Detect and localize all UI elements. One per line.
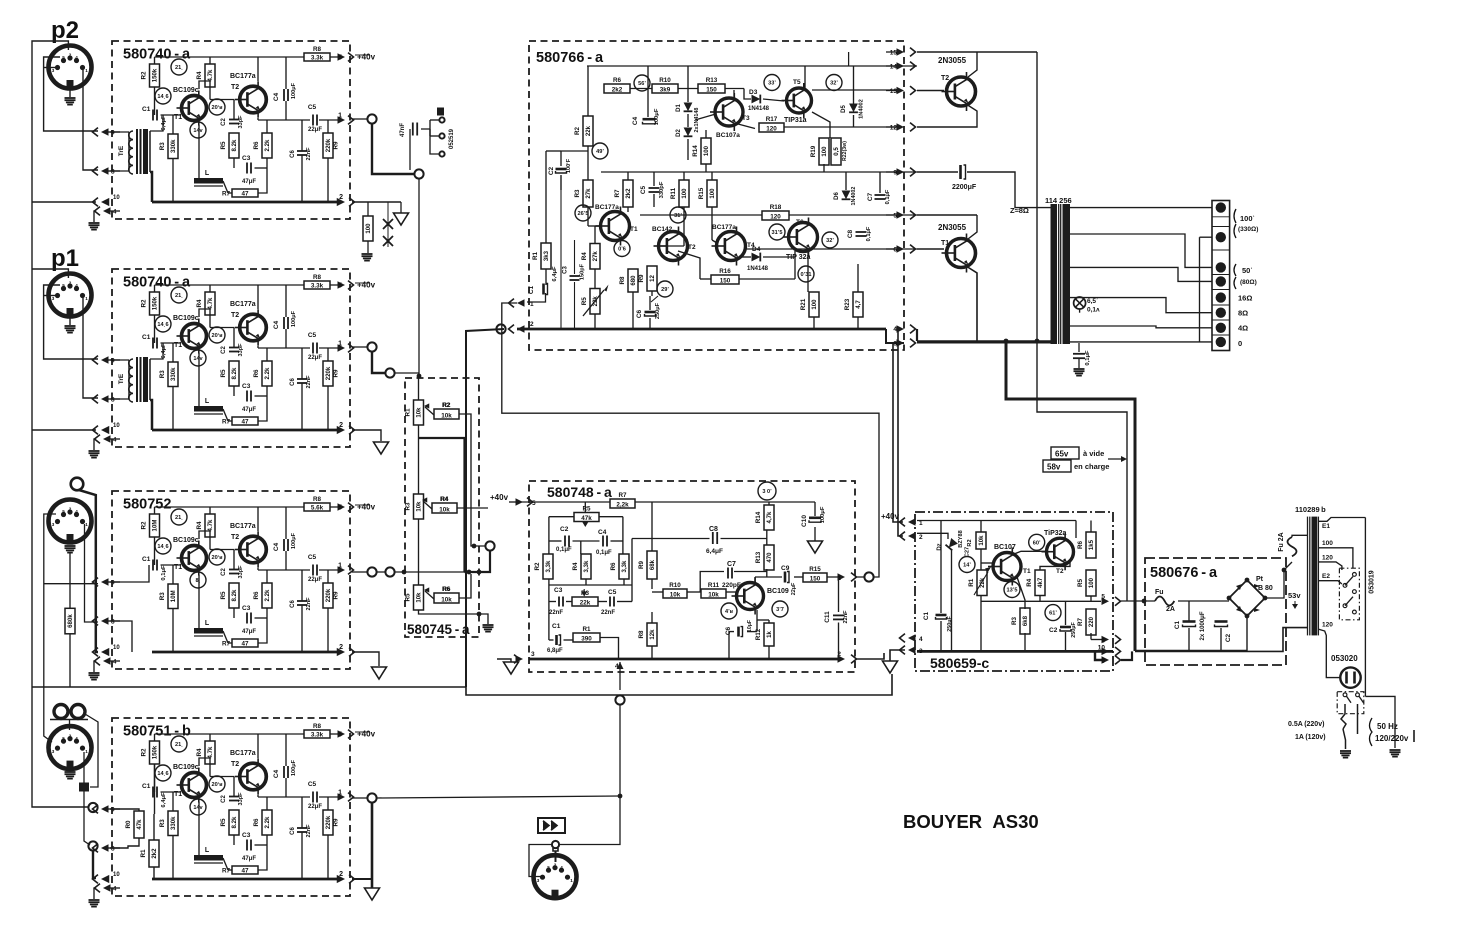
resistor R6 3.3k (748) bbox=[619, 554, 629, 579]
svg-text:0,1μF: 0,1μF bbox=[161, 565, 167, 581]
svg-text:T2: T2 bbox=[941, 75, 949, 82]
resistor R2 bbox=[150, 741, 160, 764]
svg-text:2: 2 bbox=[919, 534, 923, 541]
svg-text:330k: 330k bbox=[170, 367, 177, 381]
ground hatch below p1 bbox=[69, 317, 71, 325]
input jack circle block4 pin9 bbox=[88, 803, 97, 812]
svg-text:R8: R8 bbox=[313, 496, 322, 503]
capacitor C6 22nF bbox=[297, 600, 307, 602]
svg-text:R2: R2 bbox=[141, 521, 148, 530]
ground hatch below 0.1uF bbox=[1074, 368, 1085, 370]
svg-text:TrE: TrE bbox=[118, 145, 125, 156]
aux phono connector bbox=[71, 478, 84, 491]
svg-text:9: 9 bbox=[111, 580, 115, 587]
wire to output transformer bbox=[967, 172, 1051, 208]
wire R16 row bbox=[700, 278, 711, 280]
svg-text:100: 100 bbox=[365, 223, 372, 234]
svg-text:8.2k: 8.2k bbox=[231, 367, 238, 379]
input pin 8 bbox=[101, 617, 109, 625]
svg-text:R6: R6 bbox=[613, 77, 622, 84]
svg-text:R19: R19 bbox=[810, 145, 817, 157]
input pin 8 bbox=[101, 395, 109, 403]
wire block2 output to mid bbox=[372, 352, 385, 373]
tape connector capsule bbox=[79, 783, 89, 792]
svg-text:5: 5 bbox=[893, 213, 897, 220]
wire block1 pin2 extension bbox=[352, 201, 401, 203]
svg-text:580745 - a: 580745 - a bbox=[407, 622, 470, 637]
svg-text:C2: C2 bbox=[560, 526, 569, 533]
svg-text:100μF: 100μF bbox=[291, 310, 297, 327]
resistor R7 bbox=[232, 189, 258, 197]
svg-text:BC109: BC109 bbox=[767, 588, 789, 595]
module 580748-a dashed box bbox=[529, 481, 855, 672]
svg-text:1N4002: 1N4002 bbox=[859, 99, 865, 119]
wires internal bbox=[155, 506, 305, 508]
svg-text:3: 3 bbox=[531, 651, 535, 658]
voltage circle 26_5 bbox=[575, 205, 591, 221]
svg-text:E2: E2 bbox=[1322, 573, 1330, 580]
C8 row bbox=[632, 538, 710, 540]
svg-text:10k: 10k bbox=[415, 407, 422, 418]
resistor R6 2k2 bbox=[604, 84, 630, 93]
resistor R2 10k (659) bbox=[976, 532, 986, 549]
svg-text:120: 120 bbox=[1322, 622, 1333, 629]
resistor R4 bbox=[205, 741, 215, 764]
svg-text:R7: R7 bbox=[614, 189, 621, 198]
capacitor C2 250uF (659) bbox=[1060, 626, 1071, 629]
long wire pin15 vertical bbox=[1037, 52, 1127, 601]
svg-text:1: 1 bbox=[85, 68, 88, 73]
tape head symbol bbox=[54, 705, 68, 719]
svg-text:2: 2 bbox=[339, 194, 343, 201]
voltage circle 60 (659) bbox=[1029, 534, 1045, 550]
resistor R8 12k (748) bbox=[647, 623, 657, 646]
svg-text:5: 5 bbox=[547, 865, 550, 870]
svg-text:R4: R4 bbox=[581, 252, 588, 261]
svg-text:2N3055: 2N3055 bbox=[938, 223, 967, 232]
resistor R9 bbox=[323, 810, 333, 835]
svg-text:21ˎ: 21ˎ bbox=[175, 742, 183, 748]
svg-text:BC109c: BC109c bbox=[173, 315, 199, 322]
wire DIN3 pins to left rail bbox=[44, 514, 56, 687]
svg-text:4,7: 4,7 bbox=[855, 300, 862, 309]
svg-text:5: 5 bbox=[338, 505, 342, 512]
svg-text:10M: 10M bbox=[170, 590, 177, 602]
svg-text:R2: R2 bbox=[141, 299, 148, 308]
svg-text:R7: R7 bbox=[618, 492, 627, 499]
pin 9 659 bbox=[1102, 656, 1110, 664]
svg-text:4.7k: 4.7k bbox=[207, 297, 214, 309]
svg-text:15: 15 bbox=[890, 50, 898, 57]
voltage circle 32b bbox=[822, 232, 838, 248]
svg-text:3: 3 bbox=[537, 878, 540, 883]
svg-text:10k: 10k bbox=[708, 591, 719, 598]
svg-text:470: 470 bbox=[766, 552, 773, 563]
wire p2 pin3 stub bbox=[44, 67, 55, 69]
module 580676-a dashed box bbox=[1145, 558, 1286, 665]
pin 1 output bbox=[319, 796, 341, 798]
svg-text:R3: R3 bbox=[159, 819, 166, 828]
svg-text:6,4μF: 6,4μF bbox=[161, 792, 167, 808]
svg-text:C5: C5 bbox=[640, 185, 647, 194]
svg-text:8.2k: 8.2k bbox=[231, 589, 238, 601]
resistor R14 100 bbox=[701, 138, 711, 164]
resistor R19 100 and R22(3w) 0.5 bbox=[819, 138, 829, 165]
svg-text:C3: C3 bbox=[242, 383, 251, 390]
wire bridge right to fuse Fu2A bbox=[1265, 570, 1284, 598]
svg-text:150: 150 bbox=[706, 86, 717, 93]
resistor R5 100 (659) bbox=[1086, 570, 1096, 596]
svg-text:C2: C2 bbox=[1049, 627, 1058, 634]
svg-text:330k: 330k bbox=[170, 816, 177, 830]
zener Dz BZY88 C27 bbox=[946, 538, 958, 550]
input pin 9 bbox=[101, 578, 109, 586]
wire R6 row bbox=[459, 574, 471, 598]
svg-text:150k: 150k bbox=[151, 68, 158, 82]
svg-text:R3: R3 bbox=[574, 189, 581, 198]
svg-text:R6: R6 bbox=[253, 141, 260, 150]
wire to input 10 block1 bbox=[32, 201, 96, 203]
voltage circle 14v bbox=[190, 350, 206, 366]
svg-text:3k9: 3k9 bbox=[660, 86, 671, 93]
svg-text:1k: 1k bbox=[766, 631, 773, 638]
wire secondary bottom bbox=[1247, 628, 1308, 652]
svg-text:0,1μF: 0,1μF bbox=[885, 189, 891, 204]
svg-text:R8: R8 bbox=[638, 630, 645, 639]
wire R2 to jack line bbox=[459, 414, 486, 546]
resistor R8 bbox=[304, 503, 330, 511]
svg-text:R23: R23 bbox=[844, 298, 851, 310]
resistor R3 bbox=[168, 584, 178, 609]
capacitor C11 22nF (748) bbox=[833, 614, 844, 616]
resistor 680k bbox=[65, 608, 75, 634]
resistor R2 3.3k (748) bbox=[543, 554, 553, 579]
svg-text:580676 - a: 580676 - a bbox=[1150, 565, 1218, 581]
svg-text:8: 8 bbox=[111, 619, 115, 626]
svg-text:21ˎ: 21ˎ bbox=[175, 65, 183, 71]
svg-text:5: 5 bbox=[338, 283, 342, 290]
svg-text:R12: R12 bbox=[755, 628, 762, 640]
svg-text:L: L bbox=[205, 620, 210, 627]
svg-text:2,2k: 2,2k bbox=[616, 501, 629, 508]
thick supply vertical bbox=[1006, 341, 1135, 651]
primary tap 120 bbox=[1318, 562, 1342, 570]
wire C2 column down bbox=[560, 176, 562, 329]
voltage circle 30 (748) bbox=[758, 482, 776, 500]
input pin 9 bbox=[101, 356, 109, 364]
svg-text:C1: C1 bbox=[923, 611, 930, 620]
svg-text:10μF: 10μF bbox=[747, 620, 753, 632]
resistor R8 680 bbox=[628, 269, 638, 292]
ground hatch bbox=[89, 899, 100, 901]
ground triangle C10 bbox=[814, 527, 816, 541]
svg-text:1: 1 bbox=[85, 749, 88, 754]
svg-text:BC177a: BC177a bbox=[230, 750, 256, 757]
diodes D1 D2 2x1N4148 bbox=[684, 103, 693, 112]
DIN connector 4 bbox=[49, 726, 92, 769]
svg-text:1N4148: 1N4148 bbox=[747, 266, 769, 272]
DIN connector 3 bbox=[49, 500, 92, 543]
svg-text:R2: R2 bbox=[141, 71, 148, 80]
capacitor C5 22uF bbox=[312, 343, 314, 354]
svg-text:47: 47 bbox=[241, 640, 249, 647]
capacitor C8 0.1uF bbox=[856, 231, 867, 233]
svg-text:C6: C6 bbox=[636, 309, 643, 318]
svg-text:100: 100 bbox=[1088, 577, 1095, 588]
wire p1 pin1 to input 8 bbox=[83, 298, 98, 398]
svg-text:2200μF: 2200μF bbox=[952, 184, 977, 191]
svg-text:100ʻF: 100ʻF bbox=[566, 158, 572, 173]
svg-text:580740 - a: 580740 - a bbox=[123, 275, 191, 291]
svg-text:12: 12 bbox=[890, 125, 898, 132]
svg-text:4,7k: 4,7k bbox=[766, 511, 773, 523]
module 580745-a dashed box bbox=[405, 378, 479, 637]
capacitor C3 47uF bbox=[246, 163, 248, 174]
pin 5 659 bbox=[1102, 598, 1110, 606]
pin 2 output bbox=[337, 875, 345, 883]
bottoms to feedback row bbox=[548, 579, 550, 640]
svg-text:C3: C3 bbox=[242, 605, 251, 612]
svg-text:33pF: 33pF bbox=[238, 565, 244, 579]
column R9 R8 bbox=[651, 502, 653, 551]
svg-text:100μF: 100μF bbox=[820, 506, 826, 523]
svg-text:R2: R2 bbox=[141, 748, 148, 757]
pin 2 output 748 bbox=[838, 655, 846, 663]
primary tap 100 bbox=[1318, 548, 1353, 568]
resistor R4 bbox=[205, 514, 215, 537]
svg-text:2A: 2A bbox=[1166, 606, 1175, 613]
svg-text:2: 2 bbox=[69, 733, 72, 738]
resistor R8 bbox=[304, 281, 330, 289]
svg-text:220k: 220k bbox=[325, 815, 332, 829]
svg-text:+40v: +40v bbox=[357, 503, 376, 512]
svg-text:C3: C3 bbox=[554, 587, 563, 594]
cross marks bbox=[383, 219, 393, 229]
svg-text:3: 3 bbox=[52, 296, 55, 301]
bottom bus 748 bbox=[529, 658, 839, 661]
svg-text:2: 2 bbox=[554, 862, 557, 867]
svg-text:C4: C4 bbox=[632, 116, 639, 125]
svg-text:C5: C5 bbox=[308, 781, 317, 788]
svg-text:47: 47 bbox=[241, 867, 249, 874]
capacitor C3 47uF bbox=[246, 613, 248, 624]
wire jack to bus4 bbox=[93, 851, 96, 878]
svg-text:4: 4 bbox=[75, 55, 78, 60]
svg-text:47μF: 47μF bbox=[242, 629, 256, 635]
svg-text:150k: 150k bbox=[151, 296, 158, 310]
svg-text:100μF: 100μF bbox=[291, 82, 297, 99]
svg-text:8Ω: 8Ω bbox=[1238, 309, 1248, 318]
capacitor C5 22uF bbox=[312, 792, 314, 803]
svg-text:1A (120v): 1A (120v) bbox=[1295, 734, 1326, 741]
svg-text:1: 1 bbox=[338, 563, 342, 570]
svg-text:R9: R9 bbox=[333, 369, 340, 378]
svg-text:Pt: Pt bbox=[1256, 576, 1264, 583]
svg-text:580740 - a: 580740 - a bbox=[123, 47, 191, 63]
potentiometer R3 bbox=[414, 494, 424, 519]
svg-text:R9: R9 bbox=[333, 141, 340, 150]
capacitor C1 bbox=[152, 110, 154, 121]
svg-text:R0: R0 bbox=[125, 820, 132, 829]
capacitor C1 250uF (659) bbox=[936, 614, 947, 617]
svg-text:BC109c: BC109c bbox=[173, 537, 199, 544]
resistor R4 bbox=[205, 64, 215, 87]
voltage circle 21v bbox=[171, 736, 187, 752]
wires T3 bbox=[695, 115, 714, 121]
svg-text:2N3055: 2N3055 bbox=[938, 56, 967, 65]
svg-text:100: 100 bbox=[681, 188, 688, 199]
svg-text:B 80: B 80 bbox=[1258, 585, 1273, 592]
svg-text:9: 9 bbox=[111, 130, 115, 137]
svg-text:D1: D1 bbox=[676, 104, 682, 112]
bottom bus wire bbox=[152, 201, 341, 204]
svg-text:2.2k: 2.2k bbox=[264, 816, 271, 828]
svg-text:9: 9 bbox=[893, 170, 897, 177]
wire phono to input 10 thick bbox=[79, 490, 98, 652]
resistor R7 2k2 bbox=[623, 180, 633, 207]
svg-text:32ʼ: 32ʼ bbox=[830, 81, 838, 87]
svg-text:4: 4 bbox=[560, 865, 563, 870]
capacitor C6 22nF bbox=[297, 378, 307, 380]
svg-text:C2: C2 bbox=[1225, 633, 1232, 642]
svg-text:0,5: 0,5 bbox=[833, 147, 840, 156]
wire mid vertical to 580745 bbox=[418, 179, 420, 376]
svg-text:0.5A (220v): 0.5A (220v) bbox=[1288, 721, 1324, 728]
svg-text:120/220v: 120/220v bbox=[1375, 734, 1409, 743]
capacitor C2 33pF bbox=[229, 796, 239, 798]
resistor R18 120 bbox=[762, 211, 789, 220]
svg-text:6,4μF: 6,4μF bbox=[552, 266, 558, 282]
wire fuse to bridge bbox=[1178, 600, 1229, 602]
resistor R3 27k bbox=[583, 180, 593, 207]
switch box 053020 bbox=[1337, 692, 1364, 714]
svg-text:R13: R13 bbox=[706, 77, 718, 84]
wire head to tape capsule bbox=[85, 714, 98, 787]
svg-text:TiP32a: TiP32a bbox=[1044, 530, 1067, 537]
C7 loop bbox=[700, 572, 724, 593]
svg-text:R5: R5 bbox=[405, 593, 412, 602]
hook bus to pin9 inside bbox=[1095, 651, 1104, 660]
input pin 4 with ground bbox=[103, 657, 111, 665]
svg-text:100μF: 100μF bbox=[654, 108, 660, 125]
voltage circle 3v7 (748) bbox=[772, 601, 788, 617]
module 580752 dashed box bbox=[112, 491, 350, 669]
svg-text:2k2: 2k2 bbox=[625, 188, 632, 199]
wire DIN3 pin1 to input 8 bbox=[85, 524, 99, 622]
wire block4 pin2 bbox=[352, 878, 372, 880]
wire input 9 block3 bbox=[44, 583, 98, 585]
wire 580766 pin1 from mixer output bbox=[502, 303, 879, 577]
resistor R6 1k5 (659) bbox=[1086, 532, 1096, 558]
label 65v a vide bbox=[1051, 447, 1079, 459]
svg-text:R14: R14 bbox=[755, 511, 762, 523]
svg-text:47: 47 bbox=[241, 418, 249, 425]
svg-text:R21: R21 bbox=[800, 298, 807, 310]
resistor R7 2.2k (748) bbox=[610, 499, 635, 508]
svg-text:3.3k: 3.3k bbox=[311, 731, 324, 738]
svg-text:100: 100 bbox=[821, 146, 828, 157]
pin 2 659 bbox=[908, 532, 916, 540]
jack block3 output 1 bbox=[367, 567, 376, 576]
svg-text:4.7k: 4.7k bbox=[207, 69, 214, 81]
svg-text:2: 2 bbox=[69, 281, 72, 286]
ground hatch bbox=[89, 450, 100, 452]
resistor R3 bbox=[168, 362, 178, 387]
voltage circle 20% bbox=[209, 99, 225, 115]
svg-text:680: 680 bbox=[630, 275, 637, 286]
svg-text:C1: C1 bbox=[528, 285, 535, 294]
resistor R2 bbox=[150, 292, 160, 315]
selector contacts bbox=[1353, 573, 1357, 577]
fuse Fu 2A vertical bbox=[1284, 562, 1292, 570]
svg-text:R4: R4 bbox=[1026, 578, 1033, 587]
pin 5 +40v bbox=[330, 733, 341, 735]
svg-text:C2: C2 bbox=[221, 346, 227, 354]
resistor R3 bbox=[168, 134, 178, 159]
capacitor C3 150pF bbox=[570, 275, 580, 277]
svg-text:10k: 10k bbox=[439, 506, 450, 513]
voltage selector box bbox=[1339, 568, 1359, 620]
svg-text:47μF: 47μF bbox=[242, 407, 256, 413]
resistor R0 47k bbox=[134, 811, 144, 838]
svg-text:33pF: 33pF bbox=[238, 115, 244, 129]
svg-text:R2: R2 bbox=[442, 402, 451, 409]
svg-text:R4: R4 bbox=[196, 748, 203, 757]
svg-text:100μF: 100μF bbox=[291, 532, 297, 549]
svg-text:C5: C5 bbox=[308, 104, 317, 111]
svg-text:R4: R4 bbox=[196, 521, 203, 530]
svg-text:R6: R6 bbox=[442, 586, 451, 593]
voltage circle 14v6 bbox=[155, 538, 171, 554]
svg-text:3.3k: 3.3k bbox=[311, 282, 324, 289]
C9 output row bbox=[754, 577, 756, 583]
svg-text:14ˎ6: 14ˎ6 bbox=[157, 544, 168, 550]
wires output T2 bbox=[917, 51, 1037, 53]
svg-text:330k: 330k bbox=[170, 139, 177, 153]
svg-text:9: 9 bbox=[111, 807, 115, 814]
wire TrE primary bbox=[110, 131, 129, 133]
svg-text:150: 150 bbox=[810, 575, 821, 582]
svg-text:T2: T2 bbox=[1056, 568, 1064, 575]
svg-text:R8: R8 bbox=[313, 274, 322, 281]
svg-text:1: 1 bbox=[570, 878, 573, 883]
voltage circle 4% (748) bbox=[721, 603, 737, 619]
capacitor C4 100uF bbox=[283, 766, 285, 778]
svg-text:2: 2 bbox=[339, 871, 343, 878]
resistor R9 12 bbox=[647, 266, 657, 291]
ground hatch bbox=[89, 222, 100, 224]
svg-text:14ˎ6: 14ˎ6 bbox=[157, 771, 168, 777]
resistor R14 4.7k (748) bbox=[764, 505, 774, 530]
svg-text:R3: R3 bbox=[159, 370, 166, 379]
svg-text:100: 100 bbox=[811, 299, 818, 310]
wire p2 pin5 to input 9 bbox=[44, 57, 98, 131]
wire block4 output down to ground bbox=[371, 803, 374, 888]
svg-text:R4: R4 bbox=[196, 71, 203, 80]
potentiometer R5 bbox=[414, 585, 424, 610]
svg-text:R7: R7 bbox=[1077, 617, 1084, 626]
svg-text:580748 - a: 580748 - a bbox=[547, 484, 612, 500]
ground hatch below DIN4 bbox=[65, 771, 76, 773]
capacitor C1 1000uF (676) bbox=[1183, 620, 1196, 623]
capacitor C10 100uF (748) bbox=[809, 516, 821, 519]
voltage circle 49 bbox=[592, 143, 608, 159]
resistor R2 bbox=[150, 514, 160, 537]
wire plug bottom to ground bbox=[1343, 729, 1346, 749]
svg-text:20ʻʁ: 20ʻʁ bbox=[211, 105, 223, 111]
svg-text:14ˎ6: 14ˎ6 bbox=[157, 322, 168, 328]
svg-text:R7: R7 bbox=[222, 419, 231, 426]
